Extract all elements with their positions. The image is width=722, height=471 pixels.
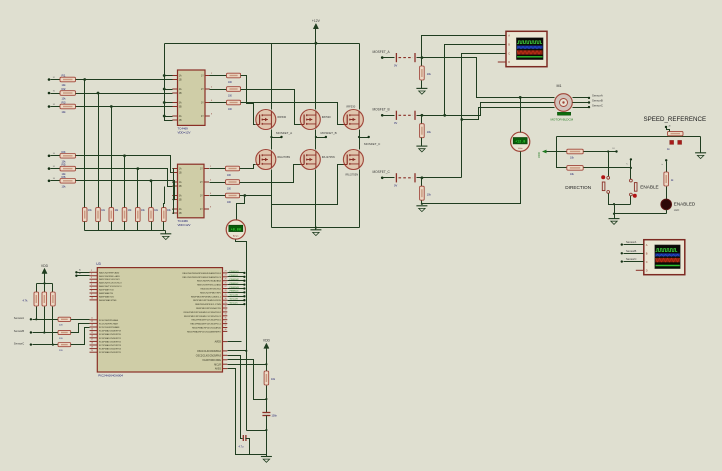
- svg-text:6: 6: [91, 284, 92, 286]
- svg-text:9: 9: [91, 294, 92, 296]
- wire phase A to motor: [422, 58, 555, 98]
- svg-text:RC9/PMA6/CN19/RP25: RC9/PMA6/CN19/RP25: [99, 351, 122, 354]
- wire U3 analog input A: [75, 271, 77, 273]
- svg-text:3A: 3A: [179, 195, 182, 198]
- power VDD U3 support: [264, 343, 269, 348]
- wire OSC2 row to cap 4.7u: [228, 356, 243, 439]
- svg-text:RA2/CN30/CLKI/OSCI: RA2/CN30/CLKI/OSCI: [99, 278, 120, 281]
- svg-text:RA4/CN0/T1CK/SOSCO: RA4/CN0/T1CK/SOSCO: [99, 285, 122, 288]
- svg-text:RC2/CN10/RP18/AN8: RC2/CN10/RP18/AN8: [99, 326, 120, 329]
- gate resistor R13 100R: [210, 102, 227, 104]
- ground MOSFET_B: [421, 138, 423, 147]
- svg-text:SPEED_REFERENCE: SPEED_REFERENCE: [644, 116, 707, 123]
- svg-text:SensorB: SensorB: [230, 299, 239, 301]
- motor M1 MOTOR-BLDCM: [555, 94, 573, 112]
- svg-text:16: 16: [91, 336, 93, 338]
- svg-text:S3: S3: [53, 104, 55, 106]
- wire SensorC row: [30, 343, 32, 345]
- wire R2 output: [76, 93, 169, 95]
- svg-text:R3: R3: [62, 101, 66, 105]
- svg-text:S4: S4: [53, 153, 55, 155]
- wire gate low-side B: [240, 165, 301, 183]
- wire AVDD row: [228, 341, 242, 343]
- svg-text:SensorB: SensorB: [592, 99, 603, 103]
- svg-text:RB10/PMD2/RP10/EMUD1/CN16/PGD2: RB10/PMD2/RP10/EMUD1/CN16/PGD2: [184, 312, 222, 314]
- svg-text:PWM1H2: PWM1H2: [230, 279, 240, 281]
- svg-text:RB6/PMD6/RP6/EMUC2/ASCL1: RB6/PMD6/RP6/EMUC2/ASCL1: [191, 295, 222, 298]
- svg-text:26: 26: [225, 282, 227, 284]
- svg-text:PIC24HJ64GA004: PIC24HJ64GA004: [98, 374, 123, 378]
- svg-text:RB11/PMD1/RP11/EMUC1/CN15/PGC2: RB11/PMD1/RP11/EMUC1/CN15/PGC2: [184, 316, 222, 318]
- wire scope2 D stub: [636, 269, 644, 271]
- battery probe MOSFET_C: [381, 177, 384, 180]
- wire R6 output: [76, 180, 171, 182]
- wire resistor to VCAP node: [266, 386, 268, 413]
- svg-text:SensorB: SensorB: [14, 329, 25, 333]
- svg-text:B: B: [508, 42, 510, 46]
- power rail +12V top: [165, 43, 360, 45]
- wire LED cathode: [666, 210, 668, 214]
- svg-text:4Y: 4Y: [200, 209, 203, 211]
- wire resistor to LED: [666, 187, 668, 200]
- svg-text:3Y: 3Y: [200, 196, 203, 198]
- wire direction switch feed: [608, 152, 610, 177]
- svg-text:11: 11: [91, 318, 93, 320]
- svg-text:MOSFET_A: MOSFET_A: [276, 131, 292, 135]
- wire bus R1 to pull-down: [84, 80, 86, 208]
- svg-text:RB15/PMA0/RP15/CN11/AN9/REFO: RB15/PMA0/RP15/CN11/AN9/REFO: [187, 330, 221, 333]
- svg-text:RB7/PMD5/RP7/EMUD2/INT0: RB7/PMD5/RP7/EMUD2/INT0: [193, 300, 222, 302]
- wire cap 4.7u to rail: [246, 439, 250, 455]
- wire scope channel A: [422, 36, 507, 58]
- battery probe MOSFET_B: [381, 114, 384, 117]
- svg-text:OSC2/CLKO/CN29/RA3: OSC2/CLKO/CN29/RA3: [196, 354, 222, 357]
- wire voltmeter bottom: [422, 152, 521, 204]
- svg-text:RB14/PMA1/RP14/CN12/AN10: RB14/PMA1/RP14/CN12/AN10: [192, 327, 222, 330]
- svg-text:R2: R2: [62, 87, 66, 91]
- resistor R2: [48, 92, 51, 95]
- svg-text:RC0/CN8/RP16/AN6: RC0/CN8/RP16/AN6: [99, 319, 119, 322]
- svg-text:MOSFET_B: MOSFET_B: [373, 108, 390, 112]
- wire source rail low-side: [271, 170, 273, 228]
- svg-text:S5: S5: [53, 166, 55, 168]
- wire sensorA to scope: [621, 243, 623, 245]
- svg-text:ENABLED: ENABLED: [674, 201, 696, 206]
- wire VCAP row: [228, 360, 267, 400]
- svg-text:PWM1H3: PWM1H3: [230, 287, 240, 289]
- svg-text:7: 7: [91, 287, 92, 289]
- wire switch commons to ground: [609, 194, 631, 205]
- wire SensorC to U3: [71, 328, 90, 345]
- switch DIRECTION: [607, 176, 610, 179]
- svg-text:MOTOR-BLDCM: MOTOR-BLDCM: [551, 118, 574, 122]
- wire phase node A: [271, 130, 273, 150]
- svg-text:M1: M1: [557, 84, 562, 88]
- net labels PIC right side: [228, 272, 245, 274]
- wire gate high-side A: [241, 76, 256, 125]
- svg-text:1Y: 1Y: [201, 76, 204, 78]
- svg-text:PWM1L2: PWM1L2: [230, 283, 240, 285]
- svg-text:D: D: [508, 60, 510, 64]
- svg-text:1A: 1A: [179, 168, 182, 171]
- wire scope D stub: [498, 61, 506, 63]
- transistor Q5 IRLI2705N: [300, 150, 320, 170]
- svg-text:SensorC: SensorC: [626, 257, 637, 261]
- microcontroller U3 PIC24HJ128GP202: [97, 268, 222, 372]
- svg-text:4.7u: 4.7u: [239, 446, 244, 449]
- svg-text:RB8/PMD4/RP8/SCL1/TMS: RB8/PMD4/RP8/SCL1/TMS: [195, 304, 221, 306]
- svg-text:17: 17: [91, 339, 93, 341]
- svg-text:SensorA: SensorA: [14, 316, 25, 320]
- gate resistor R21 100R: [210, 168, 226, 170]
- svg-text:1B: 1B: [179, 173, 182, 175]
- wire SensorB to U3: [71, 324, 90, 333]
- svg-text:1Y: 1Y: [200, 169, 203, 171]
- svg-text:B: B: [646, 252, 648, 256]
- svg-text:RB13/PMA10/RP13/CN13/PGC1: RB13/PMA10/RP13/CN13/PGC1: [190, 323, 221, 326]
- wire bus R2 to pull-down: [98, 94, 100, 208]
- series resistor SensorA: [58, 317, 71, 321]
- svg-text:3A: 3A: [179, 102, 182, 105]
- wire scope channel C: [462, 54, 507, 178]
- svg-text:2Y: 2Y: [200, 182, 203, 184]
- svg-text:RB3/CN7/RP3/SCL2/AN5: RB3/CN7/RP3/SCL2/AN5: [197, 284, 222, 287]
- svg-text:4B: 4B: [179, 120, 182, 122]
- svg-text:4.7k: 4.7k: [23, 299, 29, 303]
- wire 7th pull-down top: [164, 187, 165, 208]
- svg-text:D: D: [646, 269, 648, 273]
- transistor Q3 IRF530: [343, 110, 363, 130]
- driver U2 TC4469: [178, 164, 205, 218]
- wire U3 analog input B: [75, 275, 77, 277]
- svg-text:VCAP/VDDCORE: VCAP/VDDCORE: [202, 359, 221, 362]
- svg-text:RC4/PMA4/CN25/RP20: RC4/PMA4/CN25/RP20: [99, 333, 122, 336]
- svg-text:MCLR: MCLR: [214, 364, 221, 366]
- svg-text:38: 38: [225, 329, 227, 331]
- power VDD net label: [542, 150, 547, 154]
- wire bracket to enable resistor: [557, 137, 567, 168]
- wire AVSS row: [228, 369, 267, 455]
- svg-text:20: 20: [91, 350, 93, 352]
- wire phase B to motor: [422, 103, 555, 116]
- gate resistor R23 100R: [210, 195, 226, 197]
- svg-text:36: 36: [225, 321, 227, 323]
- svg-text:MOSFET_C: MOSFET_C: [373, 170, 391, 174]
- wire VDD feed speed reference: [557, 136, 701, 138]
- svg-text:VDD=12V: VDD=12V: [178, 223, 191, 227]
- svg-text:S1: S1: [53, 77, 55, 79]
- wire drain MOSFET column 3: [359, 44, 361, 110]
- svg-text:RB4/CN1/RP4/SOSCI: RB4/CN1/RP4/SOSCI: [200, 289, 221, 291]
- svg-text:28: 28: [225, 290, 227, 292]
- oscilloscope sensors: [644, 240, 685, 275]
- svg-text:U3: U3: [96, 262, 100, 266]
- svg-text:R5: R5: [62, 163, 66, 167]
- wire R3 output: [76, 106, 169, 108]
- wire OSC1 row: [228, 350, 247, 352]
- svg-text:23: 23: [225, 271, 227, 273]
- svg-text:15: 15: [91, 332, 93, 334]
- svg-text:OSC1/CLKI/CN30/RA2: OSC1/CLKI/CN30/RA2: [197, 350, 222, 353]
- oscilloscope top: [506, 31, 547, 66]
- svg-text:SensorC: SensorC: [592, 104, 603, 108]
- svg-text:2Y: 2Y: [201, 89, 204, 91]
- svg-text:RC1/CN9/RP17/AN7: RC1/CN9/RP17/AN7: [99, 322, 119, 325]
- ground MOSFET_A: [421, 81, 423, 89]
- wire gate low-side A: [240, 165, 256, 169]
- svg-text:0V: 0V: [394, 63, 397, 67]
- svg-text:RB9/PMD3/RP9/SDA1/TDI: RB9/PMD3/RP9/SDA1/TDI: [196, 307, 221, 310]
- svg-text:8: 8: [91, 291, 92, 293]
- ground bridge: [315, 228, 317, 230]
- svg-text:SensorA: SensorA: [626, 240, 637, 244]
- svg-text:R6: R6: [62, 175, 66, 179]
- wire +12V rail to U1 input tie: [164, 44, 166, 120]
- svg-text:RA1/CN3/VREF+/AN1: RA1/CN3/VREF+/AN1: [99, 275, 121, 278]
- switch ENABLE: [630, 179, 633, 182]
- resistor 10k MOSFET_A: [421, 56, 424, 59]
- svg-text:RB12/PMD0/RP12/CN14/PGD1: RB12/PMD0/RP12/CN14/PGD1: [191, 320, 221, 322]
- capacitor 4.7u: [242, 435, 244, 441]
- wire ammeter top: [237, 196, 245, 220]
- wire cap to AVSS node: [266, 416, 268, 455]
- capacitor 100n: [262, 412, 270, 414]
- svg-text:RC3/PMA2/CN28/RP19: RC3/PMA2/CN28/RP19: [99, 330, 122, 333]
- svg-text:MOSFET_B: MOSFET_B: [321, 131, 337, 135]
- svg-text:MOSFET_C: MOSFET_C: [364, 142, 381, 146]
- svg-text:RC6/PMA1/CN18/RP22: RC6/PMA1/CN18/RP22: [99, 340, 122, 343]
- svg-text:10: 10: [91, 298, 93, 300]
- svg-text:RA3/CN29/CLKO/OSCO: RA3/CN29/CLKO/OSCO: [99, 282, 122, 285]
- resistor direction pull-up: [567, 149, 583, 154]
- svg-text:18: 18: [91, 343, 93, 345]
- svg-text:34: 34: [225, 314, 227, 316]
- svg-text:0V: 0V: [394, 184, 397, 188]
- svg-text:37: 37: [225, 325, 227, 327]
- wire U1 input tie verticals: [163, 74, 166, 77]
- svg-text:C: C: [508, 52, 510, 56]
- resistor 10k MOSFET_B: [421, 114, 424, 117]
- svg-text:2: 2: [91, 270, 92, 272]
- resistor R4: [48, 155, 51, 158]
- svg-text:100n: 100n: [272, 415, 278, 418]
- svg-text:RA0/CN2/VREF-/AN0: RA0/CN2/VREF-/AN0: [99, 271, 120, 274]
- wire phase node C: [359, 130, 361, 150]
- series resistor SensorC: [58, 343, 71, 347]
- svg-text:RA7/PMA7/TCK: RA7/PMA7/TCK: [99, 289, 115, 292]
- wire ammeter net to cap node: [247, 430, 267, 432]
- wire drain MOSFET column 2: [315, 44, 317, 110]
- svg-text:5: 5: [91, 280, 92, 282]
- voltmeter probe: [511, 132, 530, 151]
- svg-text:13: 13: [91, 325, 93, 327]
- svg-text:VDD: VDD: [263, 339, 271, 343]
- resistor pull-up SensorB 4.7k: [44, 284, 46, 293]
- wire pull-down common rail: [85, 230, 166, 232]
- svg-text:IRF530: IRF530: [322, 115, 331, 119]
- wire sensorC to scope: [621, 260, 623, 262]
- svg-text:VDD=12V: VDD=12V: [178, 130, 191, 134]
- wire scope channel B: [445, 45, 507, 116]
- gate resistor R22 100R: [210, 182, 226, 184]
- wire SensorB row: [30, 331, 32, 333]
- ground speed reference: [700, 137, 702, 153]
- svg-text:2B: 2B: [179, 186, 182, 188]
- ground switches: [614, 214, 616, 219]
- svg-text:DIRECTION: DIRECTION: [565, 185, 591, 190]
- resistor MCLR 10k: [264, 371, 269, 385]
- LED ENABLED: [661, 199, 672, 210]
- svg-text:3Y: 3Y: [201, 103, 204, 105]
- battery probe MOSFET_A: [381, 56, 384, 59]
- svg-text:SensorA: SensorA: [230, 294, 239, 297]
- wire bus R5 to pull-down: [137, 169, 139, 208]
- svg-text:12: 12: [91, 321, 93, 323]
- svg-text:A: A: [646, 243, 648, 247]
- svg-text:S6: S6: [53, 178, 55, 180]
- svg-text:S2: S2: [53, 90, 55, 92]
- svg-text:PWM1L1: PWM1L1: [230, 275, 240, 277]
- svg-text:2A: 2A: [179, 88, 182, 91]
- svg-text:4: 4: [91, 277, 92, 279]
- wire MCLR row: [228, 364, 267, 366]
- svg-text:3B: 3B: [179, 107, 182, 109]
- power symbol +12V: [313, 24, 318, 29]
- wire SensorA row: [30, 318, 32, 320]
- svg-text:IRLI2705N: IRLI2705N: [322, 155, 335, 159]
- svg-text:A: A: [508, 34, 510, 38]
- svg-text:4A: 4A: [179, 115, 182, 118]
- series resistor SensorB: [58, 330, 71, 334]
- resistor array 10k pull-downs: [82, 208, 87, 222]
- resistor pull-up SensorC 4.7k: [52, 284, 54, 293]
- wire bus R6 to pull-down: [151, 181, 153, 208]
- svg-text:RA9/PMA3/TDO: RA9/PMA3/TDO: [99, 295, 115, 298]
- wire SensorA to U3: [71, 319, 90, 321]
- ammeter probe: [226, 220, 245, 239]
- svg-text:VDD: VDD: [537, 152, 541, 158]
- transistor Q4 IRLI2705N: [256, 150, 276, 170]
- svg-text:RC5/PMA5/CN26/RP21: RC5/PMA5/CN26/RP21: [99, 337, 122, 340]
- svg-text:2A: 2A: [179, 181, 182, 184]
- svg-text:14: 14: [91, 328, 93, 330]
- gate resistor R12 100R: [210, 89, 227, 91]
- svg-text:19: 19: [91, 346, 93, 348]
- wire R1 output: [76, 79, 169, 81]
- transistor Q2 IRF530: [300, 110, 320, 130]
- svg-text:31: 31: [225, 302, 227, 304]
- wire gate low-side C: [240, 165, 344, 205]
- svg-text:32: 32: [225, 306, 227, 308]
- svg-text:35: 35: [225, 317, 227, 319]
- wire U2 input connections: [161, 156, 173, 173]
- wire phase node B: [315, 130, 317, 150]
- wire sensor outputs: [573, 97, 590, 99]
- resistor 10k MOSFET_C: [421, 176, 424, 179]
- svg-text:4A: 4A: [179, 208, 182, 211]
- resistor R5: [48, 167, 51, 170]
- wire R5 output: [76, 168, 166, 170]
- svg-text:IRLI2705N: IRLI2705N: [277, 155, 290, 159]
- wire pull-up rail: [37, 283, 53, 285]
- gate resistor R11 100R: [210, 75, 227, 77]
- svg-text:RB0/CN4/PMD0/RP0/EMUD3/AN2/PGD: RB0/CN4/PMD0/RP0/EMUD3/AN2/PGD3: [182, 272, 221, 275]
- resistor R1: [48, 78, 51, 81]
- wire R4 output: [76, 155, 161, 157]
- svg-text:RA10/PMA13/TMS: RA10/PMA13/TMS: [99, 299, 117, 302]
- driver U1 TC4469: [178, 70, 206, 125]
- resistor R6: [48, 180, 51, 183]
- svg-text:SensorC: SensorC: [230, 302, 239, 304]
- svg-text:1B: 1B: [179, 80, 182, 82]
- wire gate high-side B: [241, 90, 301, 125]
- svg-text:LED: LED: [674, 208, 679, 212]
- wire voltmeter top: [520, 98, 522, 133]
- svg-text:+12.0: +12.0: [515, 141, 525, 145]
- svg-text:SensorC: SensorC: [14, 341, 25, 345]
- svg-text:VDD: VDD: [41, 264, 49, 268]
- svg-text:RC8/PMA5/CN20/RP24: RC8/PMA5/CN20/RP24: [99, 348, 122, 351]
- svg-text:4B: 4B: [179, 213, 182, 215]
- wire sensorB to scope: [621, 252, 623, 254]
- svg-text:PWM1L3: PWM1L3: [230, 291, 240, 293]
- svg-text:RB1/CN5/PMD1/RP1/EMUC3/AN3/PGC: RB1/CN5/PMD1/RP1/EMUC3/AN3/PGC3: [182, 276, 221, 279]
- wire bus R3 to pull-down: [111, 107, 113, 208]
- svg-text:+0.00: +0.00: [231, 228, 241, 232]
- svg-text:3B: 3B: [179, 200, 182, 202]
- svg-text:R1: R1: [62, 74, 66, 78]
- svg-text:RB5/CN27/PMD7/RP5: RB5/CN27/PMD7/RP5: [200, 292, 222, 294]
- svg-text:+12V: +12V: [312, 19, 321, 23]
- svg-text:RB2/CN6/RP2/SDA2/AN4: RB2/CN6/RP2/SDA2/AN4: [197, 280, 222, 283]
- resistor pull-up SensorA 4.7k: [36, 284, 38, 293]
- ground pull-down rail: [165, 231, 167, 234]
- svg-text:25: 25: [225, 278, 227, 280]
- svg-text:1A: 1A: [179, 75, 182, 78]
- transistor Q1 IRF530: [256, 110, 276, 130]
- ground U3 support: [266, 455, 268, 457]
- svg-text:SensorA: SensorA: [592, 94, 603, 98]
- svg-text:ENABLE: ENABLE: [640, 185, 659, 190]
- svg-text:PWM1H1: PWM1H1: [230, 271, 240, 273]
- wire phase C to motor: [422, 177, 462, 179]
- svg-text:29: 29: [225, 294, 227, 296]
- svg-text:27: 27: [225, 286, 227, 288]
- svg-text:30: 30: [225, 298, 227, 300]
- resistor R3: [48, 105, 51, 108]
- svg-text:C: C: [646, 260, 648, 264]
- wire ammeter bottom to U3: [236, 240, 247, 431]
- svg-text:IRLI2705N: IRLI2705N: [345, 173, 358, 177]
- wire bus R4 to pull-down: [124, 156, 126, 208]
- ground MOSFET_C: [421, 201, 423, 204]
- wire enable net stub: [630, 161, 632, 168]
- svg-text:IRF530: IRF530: [277, 115, 286, 119]
- svg-text:2B: 2B: [179, 93, 182, 95]
- svg-text:4Y: 4Y: [201, 116, 204, 118]
- wire enable row: [584, 168, 631, 181]
- transistor Q6 IRLI2705N: [343, 150, 363, 170]
- wire gate high-side C: [241, 103, 344, 125]
- svg-text:R4: R4: [62, 150, 66, 154]
- wire direction row: [584, 151, 617, 153]
- resistor LED 1k: [664, 172, 669, 186]
- svg-text:24: 24: [225, 275, 227, 277]
- svg-text:AVSS: AVSS: [215, 368, 221, 371]
- wire drain MOSFET column 1: [271, 44, 273, 110]
- svg-text:0V: 0V: [394, 121, 397, 125]
- svg-text:33: 33: [225, 310, 227, 312]
